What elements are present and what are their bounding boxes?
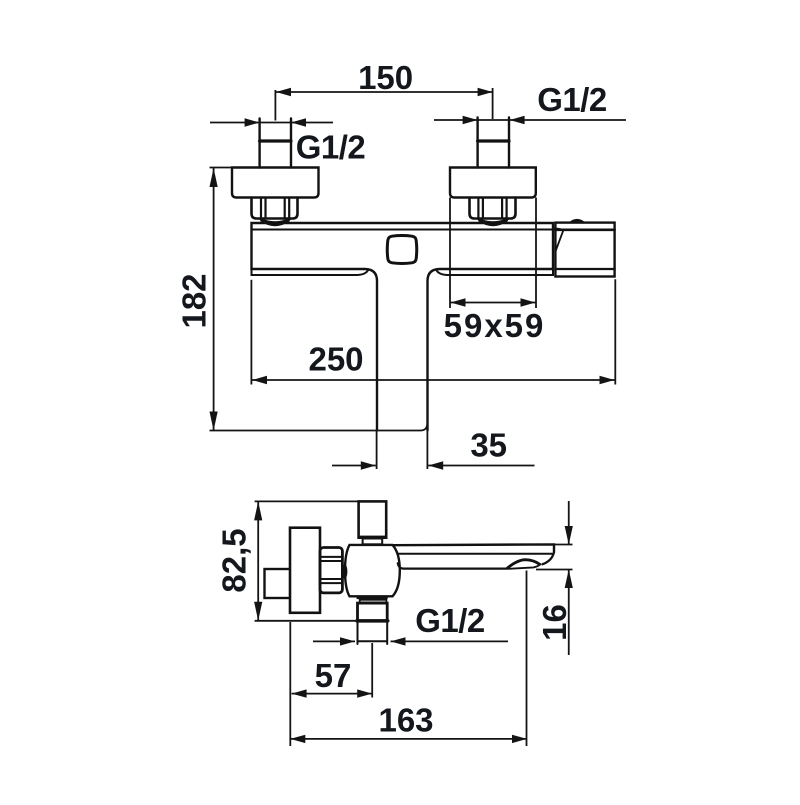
dim 57 pipe center extension	[371, 643, 373, 698]
end cap dark bump	[570, 220, 585, 223]
left inlet pipe G1/2	[260, 119, 291, 168]
faucet body barrel (side view)	[345, 545, 400, 596]
bottom seam dark band	[357, 597, 388, 600]
union hex nut (side view)	[320, 548, 342, 593]
left fitting center line	[274, 90, 276, 121]
spout inner top line	[399, 553, 553, 555]
dim 16 upper tick	[554, 544, 573, 546]
svg-text:G1/2: G1/2	[296, 129, 366, 166]
arrow 59x59 right	[521, 298, 536, 306]
arrow 35 right	[428, 461, 443, 469]
dim 182 extension top	[210, 167, 232, 169]
spout aerator lip top arc	[507, 560, 540, 569]
arrow 35 left	[361, 461, 376, 469]
end cap lever curve	[553, 228, 564, 250]
bottom collar	[360, 600, 387, 603]
right escutcheon flange	[450, 168, 536, 198]
arrow 163 left	[290, 735, 305, 743]
dim 35 right extension	[426, 431, 428, 469]
dim 182 vertical line	[213, 168, 215, 431]
arrow 57 right	[357, 689, 372, 697]
dim 59x59 line	[450, 302, 536, 304]
right pipe divider	[478, 139, 509, 142]
spout tip curve	[542, 552, 554, 564]
spout bottom edge	[398, 563, 508, 568]
arrow G1/2 top-left a	[245, 118, 260, 126]
arrow 16 down	[565, 526, 573, 545]
dark seam crescent	[342, 564, 347, 578]
dim 35 right segment	[428, 465, 534, 467]
arrow 16 up	[565, 570, 573, 589]
main bar body with spout column (top view)	[252, 223, 554, 431]
right hex nut	[470, 198, 516, 219]
arrow 150 right	[478, 88, 493, 96]
svg-text:G1/2: G1/2	[415, 602, 485, 639]
spout top edge	[393, 544, 555, 552]
bottom pipe thick base line	[357, 619, 388, 622]
spout aerator lip bottom edge	[509, 564, 540, 569]
bar bottom lip left	[252, 269, 369, 275]
dim 163 spout extension	[526, 571, 528, 747]
top collar	[363, 539, 383, 545]
svg-text:182: 182	[175, 273, 212, 328]
union nut facet lines	[321, 557, 341, 583]
dim G1/2 bottom right segment	[391, 640, 509, 642]
check valve end cap	[555, 223, 614, 277]
arrow G1/2 top-right a	[463, 116, 478, 124]
end cap bottom inner line	[555, 268, 614, 270]
arrow G1/2 bottom a	[340, 637, 355, 645]
dim 250 left extension	[250, 280, 252, 385]
svg-text:57: 57	[315, 657, 352, 694]
arrow G1/2 top-left b	[291, 118, 306, 126]
dim 16 lower tick	[536, 569, 573, 571]
svg-text:16: 16	[536, 604, 573, 641]
bottom pipe thread G1/2	[358, 621, 388, 644]
right inlet pipe G1/2	[478, 118, 509, 168]
top shower pipe (side view)	[359, 501, 387, 537]
arrow 82,5 up	[254, 501, 262, 520]
dim 250 line	[252, 379, 615, 381]
bar bottom lip right	[437, 269, 554, 275]
arrow 59x59 left	[451, 298, 466, 306]
svg-text:82,5: 82,5	[216, 528, 253, 592]
left washer dome	[260, 219, 291, 225]
svg-text:163: 163	[378, 702, 433, 739]
dim 250 right extension	[614, 279, 616, 384]
dim 35 left extension	[376, 431, 378, 469]
arrow 250 right	[600, 376, 615, 384]
diverter knob on bar	[387, 236, 417, 264]
svg-text:250: 250	[308, 341, 363, 378]
right fitting center line	[492, 88, 494, 119]
dim 163 line	[290, 738, 527, 740]
dim 16 upper line	[568, 501, 570, 545]
dim 35 left segment	[332, 465, 376, 467]
dim 82,5 extension top	[255, 500, 359, 502]
dim G1/2 bottom left segment	[313, 640, 355, 642]
left escutcheon flange	[232, 168, 319, 198]
bar inner top line	[252, 229, 554, 231]
arrow 150 left	[276, 88, 291, 96]
bottom outlet pipe thick	[358, 603, 388, 621]
right nut facets	[478, 199, 506, 219]
dim 82,5 extension bottom	[255, 620, 357, 622]
dim 82,5 vertical line	[257, 501, 259, 620]
left nut facets	[261, 199, 289, 219]
arrow 82,5 down	[254, 602, 262, 621]
dim 150 line	[276, 91, 493, 93]
svg-text:35: 35	[470, 427, 507, 464]
dim G1/2 top-right line	[434, 119, 626, 121]
arrow 182 up	[210, 168, 218, 187]
arrow 163 right	[512, 735, 527, 743]
wall connector stub (side view)	[265, 569, 292, 598]
right washer dome	[478, 219, 509, 225]
end cap top inner line	[555, 229, 614, 232]
svg-text:59x59: 59x59	[444, 307, 546, 344]
arrow 250 left	[252, 376, 267, 384]
dim 57 plate extension	[289, 622, 291, 746]
dim 59x59 left extension	[449, 198, 451, 309]
dim 16 lower line	[568, 570, 570, 656]
dim 182 extension bottom / column base line	[210, 424, 428, 431]
left hex nut	[252, 198, 298, 219]
dim 57 line	[292, 693, 373, 695]
wall plate (side view)	[290, 528, 320, 613]
arrow 182 down	[210, 412, 218, 431]
svg-text:G1/2: G1/2	[537, 81, 607, 118]
dim G1/2 top-left line	[210, 122, 333, 124]
dim 59x59 right extension	[535, 198, 537, 309]
top pipe dark band	[359, 536, 387, 539]
left pipe divider	[260, 139, 291, 142]
arrow 57 left	[292, 689, 307, 697]
arrow G1/2 top-right b	[510, 116, 525, 124]
arrow G1/2 bottom b	[391, 637, 406, 645]
svg-text:150: 150	[358, 59, 413, 96]
